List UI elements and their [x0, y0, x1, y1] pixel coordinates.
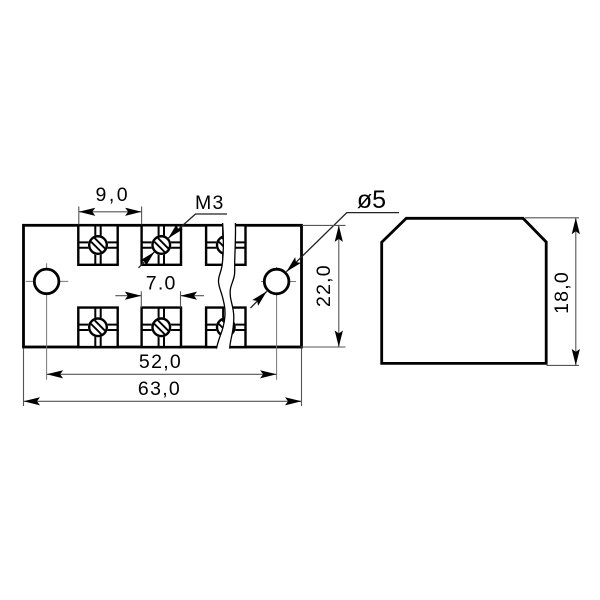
diameter label ø5 [357, 186, 386, 214]
mounting hole left crosshair [26, 263, 69, 380]
screw terminal B1 [78, 308, 117, 348]
dimension label 9,0 [95, 184, 130, 206]
dimension label 18,0 [551, 271, 573, 314]
svg-text:7.0: 7.0 [146, 273, 177, 295]
svg-text:ø5: ø5 [357, 186, 386, 214]
dimension 9,0 arrow left [79, 208, 96, 216]
dimension 63,0 arrow right [285, 397, 302, 405]
dimension 63,0 extension lines [24, 349, 302, 407]
dimension 7.0 arrow right [181, 292, 198, 300]
dimension label 63,0 [138, 378, 181, 400]
dimension 9,0 arrow right [125, 208, 142, 216]
front view body outline [24, 225, 302, 347]
dimension 22,0 arrow bottom [335, 331, 343, 348]
dimension 22,0 extension lines [301, 225, 346, 347]
side view outline [382, 218, 547, 363]
svg-text:63,0: 63,0 [138, 378, 181, 400]
ø5 leader tail lower [251, 291, 267, 308]
dimension 52,0 line [47, 373, 277, 375]
dimension 9,0 extension lines [79, 207, 142, 225]
dimension 63,0 arrow left [24, 397, 41, 405]
ø5 leader line [286, 213, 399, 272]
M3 leader arrow upper [165, 224, 182, 241]
dimension 7.0 line with tails [115, 295, 204, 297]
dimension 9,0 line [79, 211, 142, 213]
screw terminal B3 [206, 308, 245, 348]
dimension 22,0 arrow top [335, 225, 343, 242]
ø5 leader arrow lower [252, 288, 269, 305]
dimension 22,0 line [338, 225, 340, 347]
svg-text:18,0: 18,0 [551, 271, 573, 314]
dimension label 22,0 [313, 264, 335, 307]
svg-text:9,0: 9,0 [95, 184, 130, 206]
dimension 18,0 arrow top [572, 218, 580, 235]
thread label M3 [195, 192, 225, 214]
mounting hole left [34, 269, 59, 294]
svg-text:M3: M3 [195, 192, 225, 214]
dimension 18,0 line [575, 218, 577, 366]
screw terminal A3 [206, 225, 245, 264]
dimension 18,0 extension lines [525, 218, 579, 366]
ø5 leader arrow upper [284, 257, 301, 274]
dimension label 7.0 [146, 273, 177, 295]
dimension 7.0 extension lines [141, 291, 180, 307]
dimension 18,0 arrow bottom [572, 349, 580, 366]
svg-text:22,0: 22,0 [313, 264, 335, 307]
dimension 52,0 arrow right [260, 370, 277, 378]
M3 leader arrow lower [140, 249, 157, 266]
dimension 7.0 arrow left [125, 292, 142, 300]
break line band [217, 223, 236, 349]
screw terminal B2 [142, 308, 181, 348]
M3 leader tail lower [139, 252, 155, 268]
dimension label 52,0 [139, 351, 182, 373]
dimension 52,0 arrow left [47, 370, 64, 378]
svg-text:52,0: 52,0 [139, 351, 182, 373]
screw terminal A1 [78, 225, 117, 264]
mounting hole right [264, 269, 289, 294]
dimension 63,0 line [24, 400, 302, 402]
M3 leader line [168, 214, 227, 239]
mounting hole right crosshair [261, 267, 296, 380]
screw terminal A2 [142, 225, 181, 264]
